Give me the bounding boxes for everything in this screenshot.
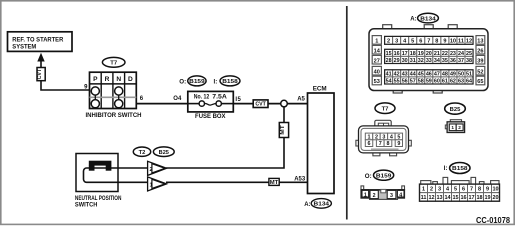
- svg-text:B134: B134: [420, 16, 437, 22]
- svg-text:7: 7: [470, 186, 473, 192]
- svg-text:SWITCH: SWITCH: [75, 202, 98, 209]
- svg-text:3: 3: [395, 38, 398, 44]
- svg-text:6: 6: [419, 38, 422, 44]
- connector B25 pinout: [445, 120, 464, 133]
- svg-text:1: 1: [375, 39, 378, 45]
- svg-text:25: 25: [466, 51, 472, 57]
- svg-text:2: 2: [430, 186, 433, 192]
- svg-text:7: 7: [427, 38, 430, 44]
- svg-text:8: 8: [478, 186, 481, 192]
- svg-text:13: 13: [436, 195, 442, 201]
- connector tag B25: [445, 103, 466, 114]
- svg-text:8: 8: [435, 38, 438, 44]
- svg-text:A53: A53: [294, 177, 306, 183]
- svg-text:I:: I:: [444, 165, 448, 172]
- wire fuse box I5 to ECM pin A5: [233, 103, 308, 105]
- B134 pins 41-51 / 54-64 block: [385, 70, 473, 85]
- connector tag O:B159: [365, 170, 394, 180]
- MT tag (vertical): [279, 123, 288, 138]
- B134 pin 27: [372, 55, 381, 64]
- svg-text:T2: T2: [139, 150, 146, 156]
- svg-text:5: 5: [411, 38, 414, 44]
- pin label A53: [294, 177, 306, 183]
- svg-text:2: 2: [373, 193, 376, 199]
- svg-text:45: 45: [418, 71, 424, 77]
- svg-text:B158: B158: [452, 166, 468, 172]
- svg-text:3: 3: [438, 186, 441, 192]
- label NEUTRAL POSITION SWITCH: [75, 195, 122, 209]
- svg-text:7: 7: [379, 141, 382, 147]
- svg-text:26: 26: [477, 48, 483, 54]
- svg-text:12: 12: [428, 195, 434, 201]
- svg-text:FUSE BOX: FUSE BOX: [195, 113, 226, 120]
- svg-text:27: 27: [374, 58, 380, 64]
- svg-text:INHIBITOR SWITCH: INHIBITOR SWITCH: [86, 112, 142, 119]
- svg-text:53: 53: [374, 79, 380, 85]
- svg-text:8: 8: [386, 141, 389, 147]
- svg-text:14: 14: [444, 195, 451, 201]
- svg-text:SYSTEM: SYSTEM: [12, 43, 36, 50]
- inhibitor switch contact table: [90, 72, 137, 108]
- B134 pins 15-25 / 28-38 block: [385, 49, 473, 64]
- svg-text:N: N: [116, 76, 121, 83]
- label INHIBITOR SWITCH: [86, 112, 142, 119]
- svg-text:21: 21: [434, 51, 440, 57]
- B158 pin grid 1-20: [420, 184, 500, 201]
- svg-text:49: 49: [450, 71, 456, 77]
- svg-text:20: 20: [426, 51, 432, 57]
- ECM box: [308, 85, 335, 193]
- svg-text:46: 46: [426, 71, 432, 77]
- wire loop inside neutral position switch: [84, 168, 148, 182]
- pin label A5: [297, 97, 305, 103]
- svg-text:ECM: ECM: [313, 85, 327, 92]
- svg-text:1: 1: [451, 125, 454, 130]
- connector pair pin 1: [148, 177, 167, 191]
- wire inhibitor switch pin 6 to fuse box O4: [136, 103, 188, 105]
- svg-text:24: 24: [458, 51, 464, 57]
- figure number CC-01078: [476, 216, 510, 225]
- svg-text:48: 48: [442, 71, 448, 77]
- svg-text:T7: T7: [382, 107, 390, 113]
- svg-text:I:: I:: [214, 78, 218, 85]
- svg-text:18: 18: [476, 195, 482, 201]
- svg-text:T7: T7: [110, 61, 118, 67]
- CVT tag (vertical): [37, 68, 45, 81]
- wire junction node: [281, 100, 288, 107]
- svg-text:51: 51: [466, 71, 472, 77]
- label FUSE BOX: [195, 113, 226, 120]
- connector T7 pinout: [356, 120, 411, 156]
- svg-text:No. 12: No. 12: [194, 93, 210, 100]
- svg-text:14: 14: [374, 48, 381, 54]
- B134 pin 26: [476, 45, 485, 54]
- svg-text:MT: MT: [270, 180, 279, 186]
- svg-text:11: 11: [458, 38, 464, 44]
- svg-text:9: 9: [486, 186, 489, 192]
- svg-text:22: 22: [442, 51, 448, 57]
- svg-text:6: 6: [462, 186, 465, 192]
- connector tag T7 (ellipse): [102, 57, 125, 67]
- pin label O4: [173, 96, 182, 102]
- T7 pins 1-5 row: [365, 133, 402, 140]
- inhibitor switch N contacts: [115, 87, 123, 108]
- svg-text:3: 3: [390, 193, 393, 199]
- svg-text:41: 41: [386, 71, 392, 77]
- svg-text:20: 20: [492, 195, 498, 201]
- connector B158 pinout: [421, 177, 499, 184]
- svg-text:65: 65: [477, 79, 483, 85]
- svg-text:17: 17: [468, 195, 474, 201]
- connector tag A:B134 under ECM: [304, 199, 331, 209]
- svg-text:6: 6: [368, 141, 371, 147]
- box REF. TO STARTER SYSTEM: [8, 32, 73, 52]
- svg-text:19: 19: [484, 195, 490, 201]
- svg-text:MT: MT: [280, 124, 286, 134]
- wire connector T2 pin 1 to ECM pin A53: [166, 181, 308, 183]
- svg-text:5: 5: [454, 186, 457, 192]
- svg-text:42: 42: [394, 71, 400, 77]
- svg-text:10: 10: [450, 38, 456, 44]
- svg-text:CVT: CVT: [255, 102, 266, 108]
- neutral switch contact bar: [89, 161, 112, 171]
- svg-text:A:: A:: [304, 202, 310, 208]
- svg-text:13: 13: [477, 39, 483, 45]
- svg-text:2: 2: [458, 125, 461, 130]
- svg-text:12: 12: [466, 38, 472, 44]
- connector tag A:B134: [410, 13, 438, 23]
- svg-text:4: 4: [399, 192, 402, 198]
- svg-text:B158: B158: [222, 79, 238, 85]
- wire junction branch down through MT tag to connector T2 pin 2: [166, 107, 284, 169]
- svg-text:I5: I5: [235, 97, 241, 103]
- svg-text:2: 2: [387, 38, 390, 44]
- svg-text:A5: A5: [297, 97, 305, 103]
- neutral position switch box: [76, 154, 118, 192]
- panel divider: [346, 6, 348, 220]
- inhibitor switch P contacts: [91, 87, 99, 108]
- svg-text:CVT: CVT: [37, 68, 43, 79]
- svg-text:17: 17: [402, 51, 408, 57]
- B134 pin 13: [476, 36, 485, 45]
- B134 pin block outlines: [385, 36, 473, 84]
- svg-text:18: 18: [410, 51, 416, 57]
- pin label 9: [84, 85, 88, 91]
- svg-text:40: 40: [374, 69, 380, 75]
- arrow to starter system: [37, 53, 44, 62]
- connector tag B25: [153, 147, 174, 157]
- svg-text:15: 15: [452, 195, 458, 201]
- B134 pins 2-12 row: [385, 36, 473, 44]
- svg-text:16: 16: [460, 195, 466, 201]
- B134 pin 14: [372, 45, 381, 54]
- svg-text:O4: O4: [173, 96, 182, 102]
- svg-text:R: R: [105, 76, 110, 83]
- svg-text:47: 47: [434, 71, 440, 77]
- svg-text:39: 39: [477, 58, 483, 64]
- B134 pin 65: [476, 76, 485, 85]
- fuse box No. 12 7.5A: [188, 91, 234, 112]
- svg-text:16: 16: [394, 51, 400, 57]
- MT tag on wire: [269, 178, 279, 186]
- wire from CVT tag to inhibitor switch pin 9: [41, 61, 90, 90]
- connector B134 pinout: [369, 25, 488, 93]
- svg-text:D: D: [128, 76, 133, 83]
- svg-text:1: 1: [364, 192, 367, 198]
- connector tag B158 (fuse box input): [214, 76, 241, 86]
- B134 pin 40: [372, 66, 381, 75]
- svg-text:11: 11: [421, 195, 427, 201]
- svg-text:O:: O:: [365, 173, 372, 180]
- connector tag I:B158: [444, 163, 470, 174]
- svg-text:B159: B159: [376, 173, 392, 179]
- svg-text:B159: B159: [189, 79, 205, 85]
- pin label 6: [140, 96, 144, 102]
- svg-text:52: 52: [477, 69, 483, 75]
- CVT tag on wire: [253, 100, 268, 108]
- svg-text:A:: A:: [410, 17, 416, 23]
- pin label I5: [235, 97, 241, 103]
- B134 pin 1: [372, 36, 381, 45]
- connector tag T2: [133, 147, 150, 156]
- B134 pin 52: [476, 66, 485, 75]
- svg-text:10: 10: [492, 186, 498, 192]
- svg-text:CC-01078: CC-01078: [476, 216, 510, 225]
- svg-text:44: 44: [410, 71, 416, 77]
- connector pair pin 2: [148, 161, 167, 175]
- connector tag T7: [375, 103, 395, 114]
- connector B159 pinout: [361, 186, 405, 200]
- T7 pins 6-9 row: [365, 140, 402, 147]
- svg-text:9: 9: [397, 141, 400, 147]
- svg-text:1: 1: [422, 186, 425, 192]
- svg-text:19: 19: [418, 51, 424, 57]
- svg-text:23: 23: [450, 51, 456, 57]
- svg-text:9: 9: [443, 38, 446, 44]
- svg-text:43: 43: [402, 71, 408, 77]
- svg-text:O:: O:: [179, 78, 186, 85]
- B134 pin 53: [372, 76, 381, 85]
- connector tag B159 (fuse box output): [179, 76, 206, 86]
- svg-text:50: 50: [458, 71, 464, 77]
- svg-text:7.5A: 7.5A: [212, 93, 227, 100]
- svg-text:B134: B134: [314, 202, 331, 208]
- svg-text:P: P: [93, 76, 98, 83]
- svg-text:15: 15: [386, 51, 392, 57]
- svg-text:B25: B25: [159, 150, 169, 156]
- B134 pin 39: [476, 55, 485, 64]
- svg-text:B25: B25: [450, 107, 461, 113]
